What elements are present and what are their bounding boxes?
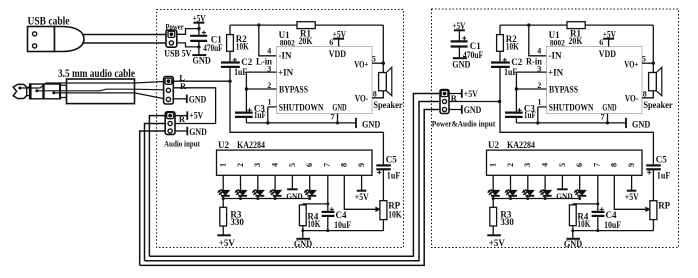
svg-text:3: 3 bbox=[523, 163, 532, 167]
wire SHUTDOWN bbox=[268, 107, 277, 123]
IC U2 KA2284 bbox=[487, 150, 643, 175]
svg-text:9: 9 bbox=[357, 163, 366, 167]
svg-text:8002: 8002 bbox=[550, 38, 565, 48]
power +5V below R3 bbox=[492, 226, 494, 235]
ground rail 8002 bbox=[516, 122, 626, 124]
wire +5V interconnect bottom bbox=[149, 94, 440, 257]
svg-text:R: R bbox=[180, 81, 187, 91]
wire audio R conductor bbox=[35, 89, 38, 92]
wire KA2284 pin9 to +5V bbox=[361, 175, 363, 190]
power +5V at pin9 bbox=[627, 190, 637, 192]
potentiometer RP bbox=[380, 201, 387, 220]
wire J3 pin1 external bbox=[149, 116, 165, 257]
svg-text:VO-: VO- bbox=[355, 95, 369, 105]
svg-text:5: 5 bbox=[642, 55, 646, 64]
wire VO+ to speaker bbox=[642, 62, 653, 64]
svg-text:GND: GND bbox=[452, 60, 470, 70]
svg-text:330: 330 bbox=[230, 217, 244, 227]
svg-text:10K: 10K bbox=[236, 42, 249, 52]
junction on GND rail bbox=[197, 45, 200, 48]
wire audio L conductor bbox=[18, 87, 21, 90]
speaker R-in bbox=[649, 73, 657, 91]
connector J4 Power&Audio input bbox=[440, 90, 449, 114]
wire pin7 to ground rail bbox=[337, 114, 339, 123]
wire L input bbox=[173, 80, 230, 82]
connector J3 Audio input bbox=[165, 112, 175, 135]
wire VO- from speaker bbox=[642, 91, 653, 98]
wire +5V rail bbox=[198, 23, 200, 35]
wire KA2284 pin1 bbox=[492, 175, 494, 190]
wiper arrow bbox=[376, 207, 381, 212]
svg-text:8: 8 bbox=[610, 163, 619, 167]
svg-text:GND: GND bbox=[286, 192, 303, 201]
svg-text:+5V: +5V bbox=[625, 192, 639, 202]
svg-text:6: 6 bbox=[305, 163, 314, 167]
svg-text:SHUTDOWN: SHUTDOWN bbox=[549, 102, 594, 112]
svg-text:7: 7 bbox=[601, 112, 605, 121]
svg-text:VO+: VO+ bbox=[354, 61, 368, 71]
wire KA2284 pin8 to wiper bbox=[614, 175, 647, 209]
svg-text:KA2284: KA2284 bbox=[507, 140, 535, 150]
capacitor C1 right bbox=[451, 40, 468, 42]
junction feedback to -IN bbox=[527, 23, 530, 26]
svg-text:6: 6 bbox=[599, 38, 603, 47]
junction shutdown ground bbox=[536, 121, 539, 124]
svg-text:4: 4 bbox=[267, 46, 271, 55]
wire RP bottom bbox=[382, 220, 384, 231]
svg-text:4: 4 bbox=[271, 163, 280, 167]
svg-text:GND: GND bbox=[189, 127, 207, 137]
svg-text:1: 1 bbox=[489, 163, 498, 167]
svg-text:+5V: +5V bbox=[355, 192, 369, 202]
wire +IN bbox=[516, 71, 546, 73]
ground tag at J3 pin3 bbox=[175, 130, 187, 132]
svg-text:Speaker: Speaker bbox=[643, 100, 672, 110]
wire right C1 to ground bbox=[458, 47, 460, 59]
svg-text:BYPASS: BYPASS bbox=[279, 85, 308, 95]
svg-text:Audio input: Audio input bbox=[164, 140, 200, 149]
wire pin7 to ground rail bbox=[607, 114, 609, 123]
svg-text:1uF: 1uF bbox=[524, 110, 536, 120]
ground tag 8002 bbox=[355, 118, 357, 128]
svg-text:+5V: +5V bbox=[464, 89, 478, 99]
svg-text:GND: GND bbox=[632, 120, 650, 130]
svg-text:GND: GND bbox=[189, 94, 207, 104]
capacitor C2 L-in bbox=[221, 61, 240, 63]
LED D1 bbox=[491, 190, 499, 195]
wire +IN to C3 bbox=[515, 72, 517, 113]
svg-text:1uF: 1uF bbox=[387, 170, 401, 180]
ground below C1 bbox=[192, 54, 206, 56]
wire C3 to ground rail bbox=[515, 117, 517, 123]
svg-text:C4: C4 bbox=[606, 210, 617, 220]
wire C4 bottom bbox=[327, 216, 329, 231]
svg-text:330: 330 bbox=[500, 217, 514, 227]
wire KA2284 pin1 bbox=[222, 175, 224, 190]
ground at KA2284 pin5 bbox=[291, 175, 293, 189]
junction R node bbox=[498, 100, 501, 103]
LED D3 bbox=[256, 190, 264, 195]
svg-text:1: 1 bbox=[538, 97, 542, 106]
wire J3 pin2 external bbox=[145, 124, 166, 261]
wire KA2284 pin7 to filter bbox=[327, 175, 329, 212]
resistor R1 L-in bbox=[297, 22, 315, 29]
capacitor C1 bbox=[190, 35, 207, 37]
meter ground rail bbox=[303, 230, 384, 232]
svg-text:4: 4 bbox=[537, 46, 541, 55]
svg-text:Speaker: Speaker bbox=[373, 100, 402, 110]
power +5V below R3 bbox=[222, 226, 224, 235]
svg-text:C5: C5 bbox=[656, 155, 667, 165]
left module dashed border bbox=[157, 10, 404, 248]
wire Power pin2 to GND rail bbox=[177, 43, 199, 47]
wire USB +5V to Power connector bbox=[82, 34, 166, 36]
connector J2 L R GND bbox=[164, 77, 174, 105]
svg-text:5: 5 bbox=[558, 163, 567, 167]
svg-text:+IN: +IN bbox=[548, 67, 564, 77]
capacitor C4 bbox=[322, 211, 335, 213]
capacitor C5 bbox=[376, 164, 391, 166]
svg-text:1uF: 1uF bbox=[504, 67, 517, 77]
svg-text:C4: C4 bbox=[336, 210, 347, 220]
wire KA2284 pin2 bbox=[510, 175, 512, 190]
wire KA2284 pin8 to wiper bbox=[344, 175, 377, 209]
svg-text:-IN: -IN bbox=[549, 50, 562, 60]
wire filter top rail bbox=[573, 203, 598, 205]
resistor R2 L-in bbox=[227, 35, 234, 52]
svg-text:1: 1 bbox=[268, 97, 272, 106]
svg-text:2: 2 bbox=[236, 163, 245, 167]
junction filter top bbox=[326, 202, 329, 205]
op-amp U1 8002 L-in bbox=[277, 47, 373, 114]
svg-text:Power: Power bbox=[165, 23, 184, 32]
ground tag 8002 bbox=[625, 118, 627, 128]
capacitor C2 R-in bbox=[491, 61, 510, 63]
LED D4 bbox=[273, 190, 281, 195]
capacitor C3 R-in bbox=[505, 111, 523, 113]
svg-text:10K: 10K bbox=[388, 209, 402, 219]
svg-text:3: 3 bbox=[253, 163, 262, 167]
wire R2 top bbox=[229, 25, 231, 34]
svg-text:20K: 20K bbox=[569, 36, 583, 46]
svg-text:4: 4 bbox=[541, 163, 550, 167]
resistor R3 bbox=[492, 199, 494, 208]
wire R routing bbox=[173, 88, 215, 124]
capacitor C5 bbox=[646, 164, 661, 166]
svg-text:8002: 8002 bbox=[280, 38, 295, 48]
op-amp U1 8002 R-in bbox=[547, 47, 643, 114]
resistor R2 R-in bbox=[497, 35, 504, 52]
junction shutdown ground bbox=[266, 121, 269, 124]
svg-text:GND: GND bbox=[362, 120, 380, 130]
svg-text:1: 1 bbox=[219, 163, 228, 167]
wire KA2284 pin3 bbox=[257, 175, 259, 190]
wire USB GND to Power connector bbox=[82, 42, 166, 44]
svg-text:VO+: VO+ bbox=[624, 61, 638, 71]
wire R2 to C2 bbox=[229, 51, 231, 62]
ground tag at J2 pin3 bbox=[173, 98, 186, 100]
svg-text:R: R bbox=[179, 114, 186, 124]
wire +IN to C3 bbox=[245, 72, 247, 113]
svg-text:VDD: VDD bbox=[599, 50, 616, 60]
LED D6 bbox=[578, 190, 586, 195]
wire BYPASS bbox=[246, 88, 276, 90]
LED D2 bbox=[508, 190, 516, 195]
speaker L-in bbox=[379, 73, 387, 91]
svg-text:C5: C5 bbox=[386, 155, 397, 165]
svg-text:U2: U2 bbox=[488, 140, 499, 150]
svg-text:SHUTDOWN: SHUTDOWN bbox=[279, 102, 324, 112]
svg-text:BYPASS: BYPASS bbox=[549, 85, 578, 95]
USB plug bbox=[28, 27, 55, 52]
LED D4 bbox=[543, 190, 551, 195]
svg-text:7: 7 bbox=[331, 112, 335, 121]
wire VO- from speaker bbox=[372, 91, 383, 98]
svg-text:10uF: 10uF bbox=[334, 220, 351, 230]
wire R4 bottom bbox=[572, 226, 574, 231]
wire KA2284 pin3 bbox=[527, 175, 529, 190]
wire BYPASS bbox=[516, 88, 546, 90]
wire C5 to RP bbox=[382, 169, 384, 200]
svg-text:8: 8 bbox=[340, 163, 349, 167]
wire C3 to ground rail bbox=[245, 117, 247, 123]
wire R interconnect bottom bbox=[145, 102, 441, 261]
capacitor C4 bbox=[592, 211, 605, 213]
wire feedback top L-in bbox=[230, 24, 297, 26]
wire KA2284 pin6 bbox=[309, 175, 311, 190]
wire R4 bottom bbox=[302, 226, 304, 231]
svg-text:GND: GND bbox=[564, 240, 582, 250]
wire right +5V rail bbox=[458, 30, 460, 41]
ground at KA2284 pin5 bbox=[561, 175, 563, 189]
ground rail 8002 bbox=[246, 122, 356, 124]
wire R input right bbox=[449, 101, 500, 103]
svg-text:7: 7 bbox=[592, 163, 601, 167]
wire SHUTDOWN bbox=[538, 107, 547, 123]
resistor R1 R-in bbox=[567, 22, 585, 29]
wire C4 bottom bbox=[597, 216, 599, 231]
svg-text:-IN: -IN bbox=[279, 50, 292, 60]
ground below right C1 bbox=[453, 57, 467, 59]
wire C5 to RP bbox=[652, 169, 654, 200]
wire KA2284 pin9 to +5V bbox=[631, 175, 633, 190]
wire audio GND conductor bbox=[52, 91, 55, 94]
junction LED rail bbox=[509, 197, 512, 200]
svg-text:10K: 10K bbox=[506, 42, 519, 52]
wire KA2284 pin7 to filter bbox=[597, 175, 599, 212]
wire C2 to source node bbox=[229, 67, 231, 81]
resistor R4 bbox=[572, 204, 574, 205]
IC U2 KA2284 bbox=[217, 150, 373, 175]
wire VO+ to speaker bbox=[372, 62, 383, 64]
wire KA2284 pin4 bbox=[544, 175, 546, 190]
svg-text:1uF: 1uF bbox=[254, 110, 266, 120]
connector J1 Power USB 5V bbox=[166, 30, 177, 47]
svg-text:10K: 10K bbox=[577, 219, 590, 229]
LED anode rail bbox=[493, 198, 580, 200]
svg-text:5: 5 bbox=[372, 55, 376, 64]
+5V tag at J3 pin1 bbox=[175, 115, 187, 117]
wire +IN bbox=[246, 71, 276, 73]
wire KA2284 pin6 bbox=[579, 175, 581, 190]
svg-text:GND: GND bbox=[193, 57, 211, 67]
power +5V at pin9 bbox=[357, 190, 367, 192]
resistor R4 bbox=[302, 204, 304, 205]
potentiometer RP bbox=[650, 201, 657, 220]
meter ground rail bbox=[573, 230, 654, 232]
svg-text:USB cable: USB cable bbox=[28, 15, 70, 27]
svg-text:470uF: 470uF bbox=[203, 43, 223, 53]
resistor R3 bbox=[222, 199, 224, 208]
wire Power pin1 to +5V rail bbox=[177, 29, 199, 35]
LED D2 bbox=[238, 190, 246, 195]
junction rail to R3 bbox=[492, 197, 495, 200]
wire C2 to source node bbox=[499, 67, 501, 102]
svg-text:RP: RP bbox=[658, 200, 670, 210]
junction feedback to -IN bbox=[257, 23, 260, 26]
wire RP bottom bbox=[652, 220, 654, 231]
ground tag at J4 pin3 bbox=[449, 109, 462, 111]
svg-text:10uF: 10uF bbox=[604, 220, 621, 230]
LED D6 bbox=[308, 190, 316, 195]
svg-text:1uF: 1uF bbox=[234, 67, 247, 77]
ground below R4 bbox=[572, 231, 574, 239]
junction +IN BYPASS bbox=[515, 87, 518, 90]
wire filter top rail bbox=[303, 203, 328, 205]
svg-text:Power&Audio input: Power&Audio input bbox=[432, 119, 496, 128]
LED anode rail bbox=[223, 198, 310, 200]
wire R2 top bbox=[499, 25, 501, 34]
LED D1 bbox=[221, 190, 229, 195]
svg-text:2: 2 bbox=[506, 163, 515, 167]
junction rail to R3 bbox=[222, 197, 225, 200]
wire -IN stub bbox=[259, 25, 277, 56]
svg-text:GND: GND bbox=[602, 103, 616, 113]
junction VO+ bbox=[382, 62, 385, 65]
svg-text:10K: 10K bbox=[307, 219, 320, 229]
audio jack plug bbox=[13, 84, 27, 98]
wire GND interconnect bottom bbox=[140, 110, 440, 266]
wire KA2284 pin2 bbox=[240, 175, 242, 190]
svg-text:GND: GND bbox=[294, 240, 312, 250]
wire audio tap to level meter bbox=[230, 81, 383, 132]
svg-text:+5V: +5V bbox=[219, 238, 235, 248]
wire KA2284 pin4 bbox=[274, 175, 276, 190]
audio cable body bbox=[67, 79, 135, 104]
LED D3 bbox=[526, 190, 534, 195]
wire -IN stub bbox=[529, 25, 547, 56]
svg-text:USB 5V: USB 5V bbox=[164, 49, 191, 59]
svg-text:KA2284: KA2284 bbox=[237, 140, 265, 150]
wire C1 to ground bbox=[198, 41, 200, 55]
right module dashed border bbox=[432, 9, 679, 248]
junction VO+ bbox=[652, 62, 655, 65]
svg-text:+5V: +5V bbox=[189, 110, 203, 120]
svg-text:6: 6 bbox=[575, 163, 584, 167]
svg-text:6: 6 bbox=[329, 38, 333, 47]
svg-text:GND: GND bbox=[332, 103, 346, 113]
svg-text:+5V: +5V bbox=[489, 238, 505, 248]
junction filter top bbox=[596, 202, 599, 205]
svg-text:5: 5 bbox=[288, 163, 297, 167]
junction L node bbox=[228, 80, 231, 83]
svg-text:7: 7 bbox=[322, 163, 331, 167]
svg-text:C2: C2 bbox=[241, 57, 252, 67]
svg-text:1uF: 1uF bbox=[657, 170, 671, 180]
svg-text:C2: C2 bbox=[511, 57, 522, 67]
wire R2 to C2 bbox=[499, 51, 501, 62]
wiper arrow bbox=[646, 207, 651, 212]
svg-text:VDD: VDD bbox=[329, 50, 346, 60]
wire feedback top R-in bbox=[500, 24, 567, 26]
svg-text:U2: U2 bbox=[218, 140, 229, 150]
junction LED rail bbox=[239, 197, 242, 200]
capacitor C3 L-in bbox=[235, 111, 253, 113]
svg-text:+IN: +IN bbox=[278, 67, 294, 77]
wire J3 pin3 external bbox=[140, 131, 166, 265]
svg-text:3.5 mm audio cable: 3.5 mm audio cable bbox=[58, 68, 135, 80]
wire audio tap to level meter bbox=[500, 102, 653, 133]
svg-text:GND: GND bbox=[556, 192, 573, 201]
ground below R4 bbox=[302, 231, 304, 239]
svg-text:VO-: VO- bbox=[625, 95, 639, 105]
junction on +5V rail bbox=[197, 27, 200, 30]
svg-text:20K: 20K bbox=[299, 36, 313, 46]
svg-text:GND: GND bbox=[464, 105, 482, 115]
svg-text:9: 9 bbox=[627, 163, 636, 167]
+5V tag at J4 pin1 bbox=[449, 93, 462, 95]
junction +IN BYPASS bbox=[245, 87, 248, 90]
